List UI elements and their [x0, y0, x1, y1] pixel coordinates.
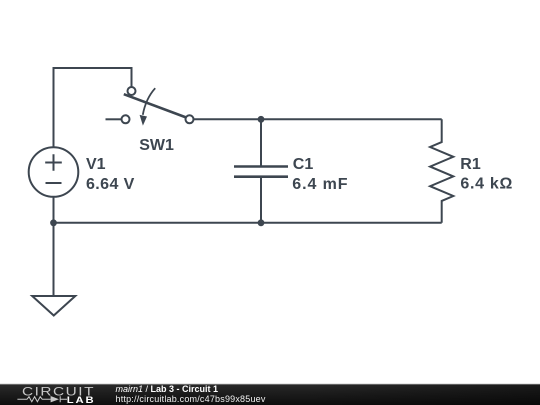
svg-text:SW1: SW1: [139, 137, 174, 154]
junction node C1 bottom: [258, 219, 265, 226]
svg-text:6.64 V: 6.64 V: [86, 176, 135, 193]
wire middle rail: [194, 118, 442, 120]
wire capacitor branch bottom: [260, 178, 262, 223]
svg-text:LAB: LAB: [67, 396, 96, 405]
svg-text:http://circuitlab.com/c47bs99x: http://circuitlab.com/c47bs99x85uev: [116, 394, 266, 404]
switch actuation arrow: [143, 88, 155, 115]
footer bar: [0, 383, 540, 386]
svg-text:C1: C1: [293, 156, 314, 173]
wire resistor branch: [430, 119, 453, 223]
wire ground stem: [53, 198, 55, 297]
svg-text:6.4 kΩ: 6.4 kΩ: [460, 176, 513, 193]
ground: [32, 296, 75, 316]
logo mini schematic: [17, 396, 67, 402]
switch terminal right: [186, 115, 194, 123]
wire capacitor branch top: [260, 119, 262, 165]
svg-text:R1: R1: [460, 156, 481, 173]
svg-text:V1: V1: [86, 156, 106, 173]
voltage source V1: [29, 147, 79, 197]
switch terminal left: [122, 115, 130, 123]
wire bottom rail: [54, 222, 442, 224]
capacitor C1: [234, 167, 288, 177]
switch terminal top: [128, 87, 136, 95]
wire switch left stub: [106, 118, 122, 120]
switch SW1: [122, 87, 194, 126]
svg-text:mairn1 / Lab 3 - Circuit 1: mairn1 / Lab 3 - Circuit 1: [116, 384, 219, 394]
switch blade: [124, 94, 188, 118]
wire top rail: [54, 68, 132, 147]
logo diode triangle: [51, 396, 59, 402]
junction node V1/bottom rail: [50, 219, 57, 226]
junction node C1 top: [258, 116, 265, 123]
svg-text:6.4 mF: 6.4 mF: [292, 176, 348, 193]
